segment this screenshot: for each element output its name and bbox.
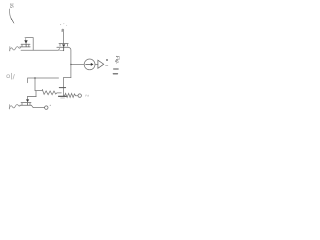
svg-text:16: 16 (8, 3, 13, 9)
svg-text:Fig.: Fig. (114, 55, 119, 64)
